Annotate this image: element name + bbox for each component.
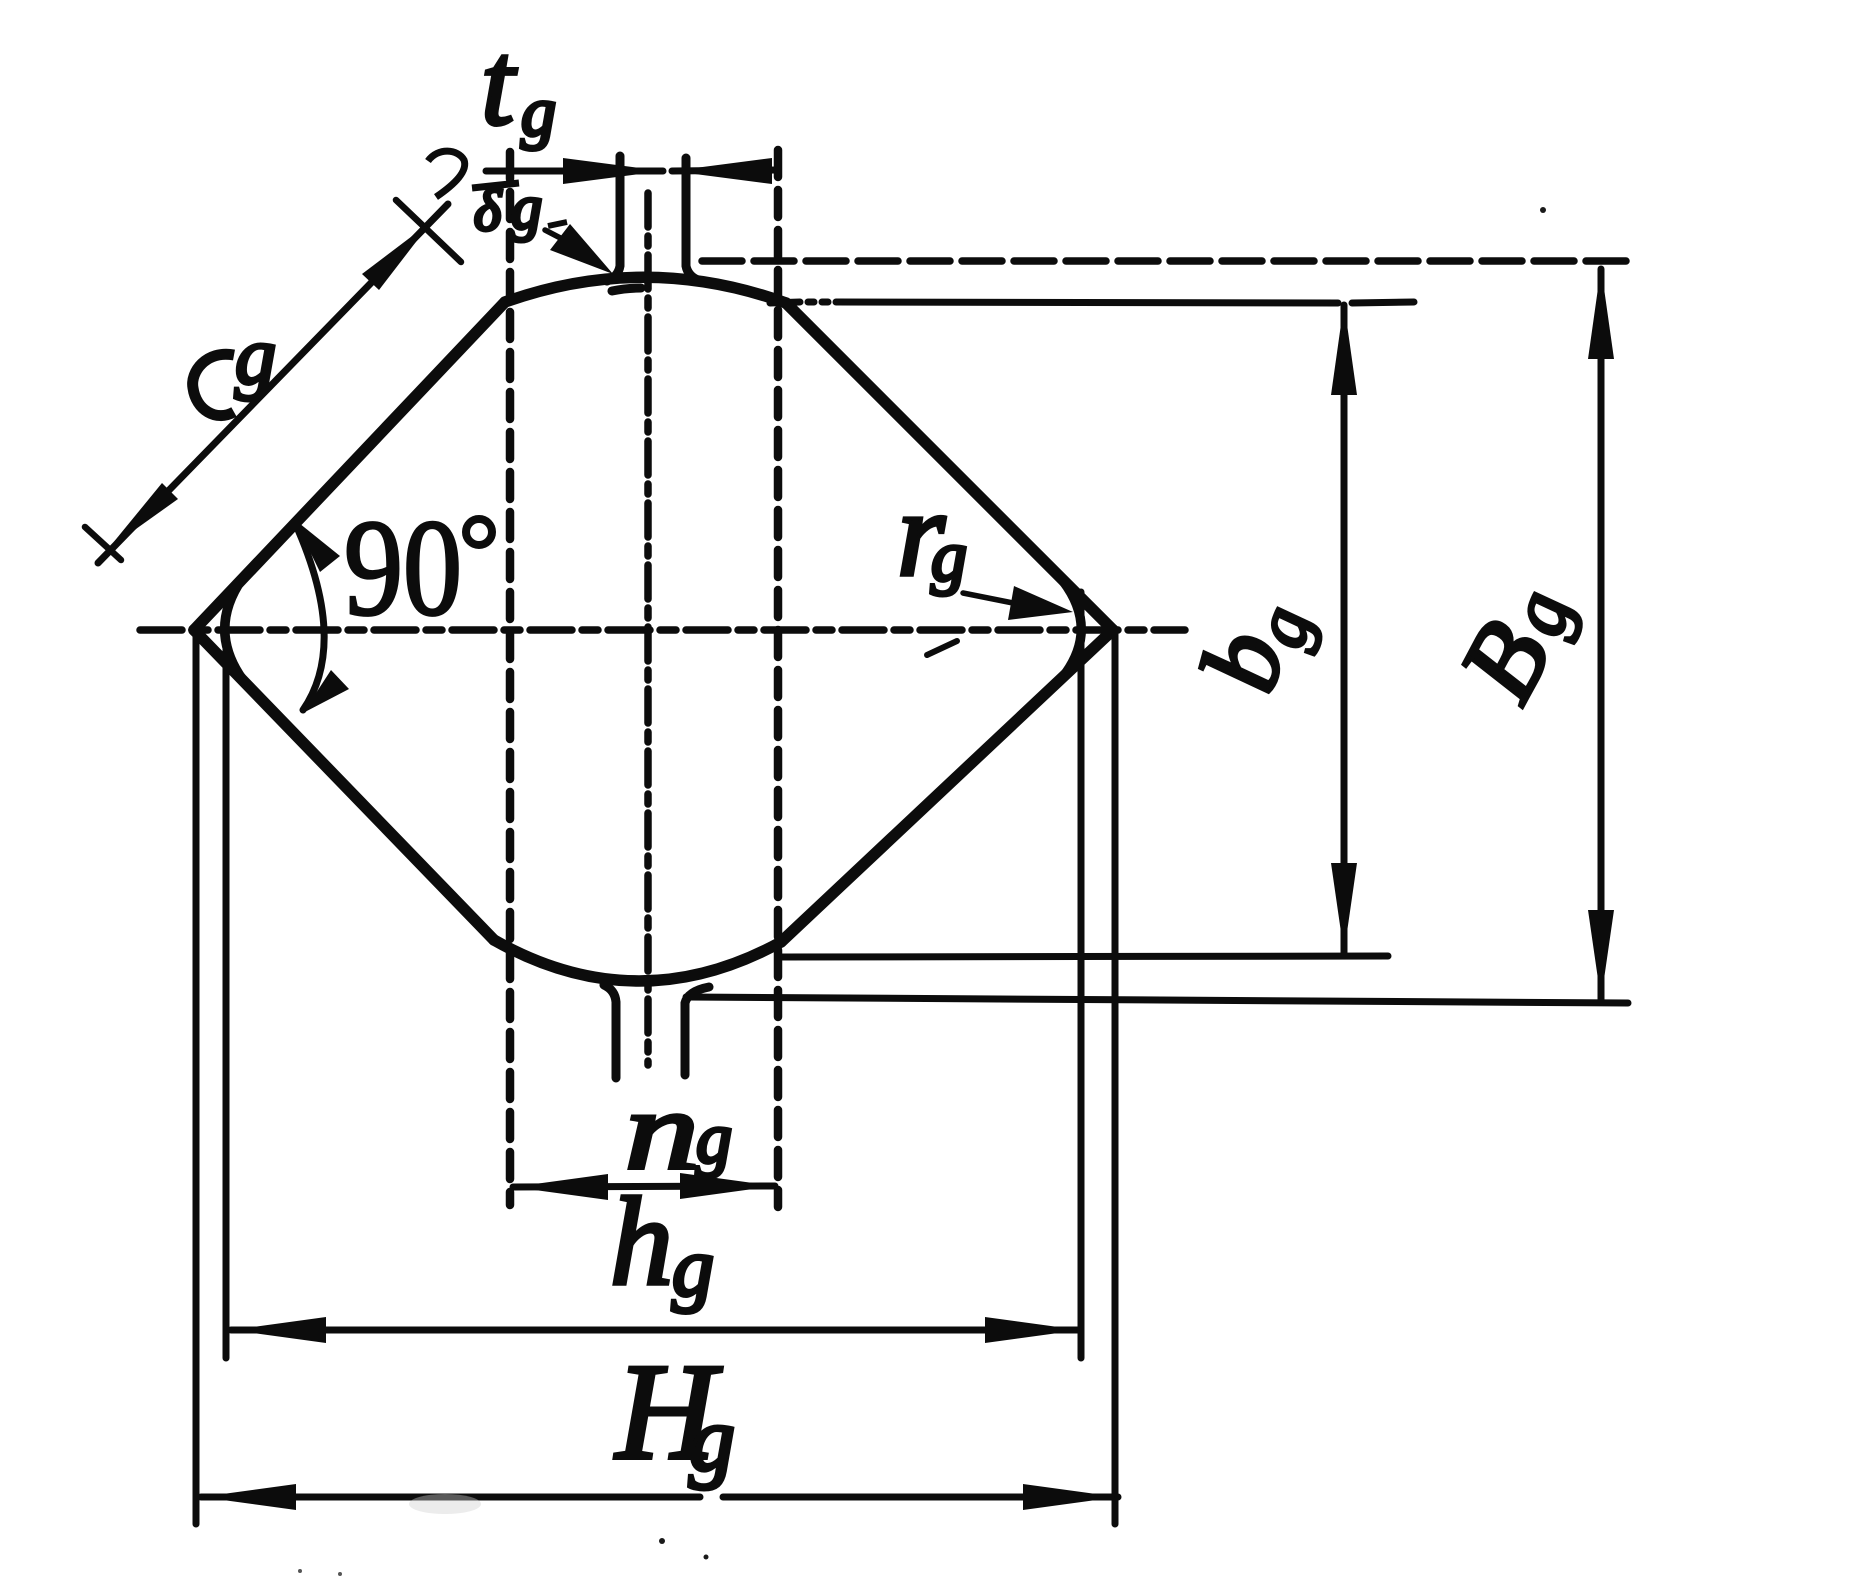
svg-text:90: 90 [344,491,462,644]
svg-text:g: g [689,1388,735,1490]
svg-text:t: t [481,17,517,150]
svg-text:h: h [610,1173,673,1312]
svg-text:δ: δ [474,178,502,243]
svg-text:g: g [521,74,556,151]
svg-text:g: g [511,174,542,242]
svg-text:g: g [235,310,276,401]
svg-text:g: g [696,1098,732,1178]
svg-text:g: g [931,516,967,596]
svg-text:g: g [672,1221,714,1314]
